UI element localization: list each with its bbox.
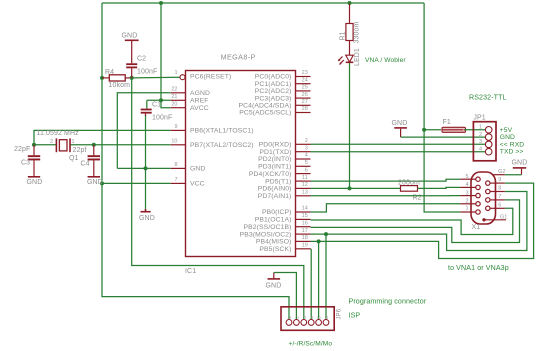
svg-text:21: 21 — [171, 94, 177, 100]
svg-text:22pf: 22pf — [73, 147, 87, 154]
ground above C2 — [122, 33, 139, 41]
svg-text:PB4(MISO): PB4(MISO) — [256, 239, 292, 246]
svg-text:GND: GND — [266, 282, 282, 289]
svg-text:16: 16 — [302, 220, 308, 226]
svg-text:to VNA1 or VNA3p: to VNA1 or VNA3p — [448, 264, 509, 272]
pin 25 PC2 stub — [255, 85, 311, 96]
svg-text:14: 14 — [302, 206, 308, 212]
svg-text:GND: GND — [122, 33, 138, 40]
svg-text:PC3(ADC3): PC3(ADC3) — [255, 95, 292, 102]
svg-text:Q1: Q1 — [69, 155, 79, 162]
svg-text:VCC: VCC — [190, 181, 205, 188]
pin X1-9 stub — [490, 177, 505, 183]
wire PB3 to ISP pin6 — [325, 234, 327, 320]
svg-text:PD4(XCK/T0): PD4(XCK/T0) — [249, 171, 292, 178]
svg-text:PD2(INT0): PD2(INT0) — [258, 156, 291, 163]
svg-text:C1: C1 — [152, 102, 161, 109]
svg-text:C2: C2 — [137, 56, 146, 63]
svg-text:6: 6 — [305, 167, 308, 173]
node crystal left junction — [32, 143, 36, 147]
wire PB3 to DB9 pin8 — [311, 192, 527, 251]
capacitor C2 — [126, 40, 157, 78]
svg-text:AVCC: AVCC — [190, 105, 209, 112]
pin 9 XTAL1 stub — [171, 124, 254, 135]
wire R2 to DB9 pin4 — [418, 187, 461, 188]
wire PB1 to DB9 pin6 — [311, 208, 513, 234]
svg-text:1: 1 — [287, 316, 292, 319]
svg-text:PC6(RESET): PC6(RESET) — [190, 74, 231, 81]
svg-text:PD5(T1): PD5(T1) — [265, 178, 291, 185]
pin 19 PB5 stub — [259, 243, 310, 254]
svg-text:LED1: LED1 — [354, 48, 361, 66]
svg-text:PC4(ADC4/SDA): PC4(ADC4/SDA) — [238, 103, 291, 110]
svg-text:2: 2 — [295, 316, 300, 319]
node VCC R1 junction — [348, 1, 352, 5]
svg-text:PC1(ADC1): PC1(ADC1) — [255, 81, 292, 88]
capacitor C4 — [73, 145, 101, 176]
svg-text:+5V: +5V — [500, 127, 513, 134]
wire PB4 to DB9 pin9 — [311, 183, 534, 258]
ground under C4 — [87, 177, 103, 186]
svg-text:18: 18 — [302, 235, 308, 241]
svg-text:10: 10 — [171, 139, 177, 145]
pin X1-4 stub — [460, 182, 475, 188]
svg-text:3: 3 — [479, 139, 482, 145]
pin 17 PB3 stub — [240, 228, 311, 239]
svg-text:R4: R4 — [105, 69, 114, 76]
pin X1-G2 stub — [493, 169, 505, 175]
svg-text:GND: GND — [87, 179, 103, 186]
LED LED1 — [338, 48, 407, 66]
svg-text:8: 8 — [498, 186, 501, 192]
crystal Q1 — [37, 130, 80, 162]
svg-text:MEGA8-P: MEGA8-P — [221, 53, 256, 62]
svg-text:PB1(OC1A): PB1(OC1A) — [255, 217, 292, 224]
svg-text:GND: GND — [190, 166, 205, 173]
svg-text:100nF: 100nF — [152, 115, 172, 122]
pin 24 PC1 stub — [255, 77, 311, 88]
pin 2 PD0 stub — [259, 138, 311, 149]
pin 13 PD7 stub — [258, 190, 311, 201]
svg-text:JP1: JP1 — [473, 115, 485, 122]
node PB3 ISP junction — [324, 232, 328, 236]
connector X1 DB9 — [471, 172, 496, 231]
svg-text:PB7(XTAL2/TOSC2): PB7(XTAL2/TOSC2) — [190, 142, 254, 149]
wire C1 bottom to GND net — [145, 115, 147, 169]
pin 5 PD3 stub — [258, 160, 310, 171]
svg-text:24: 24 — [302, 77, 308, 83]
svg-text:7: 7 — [498, 194, 501, 200]
svg-text:25: 25 — [302, 85, 308, 91]
pin 4 PD2 stub — [258, 153, 310, 164]
svg-text:27: 27 — [302, 99, 308, 105]
wire XTAL1 — [34, 130, 171, 144]
svg-text:9: 9 — [498, 177, 501, 183]
svg-text:11.0592 MHz: 11.0592 MHz — [37, 130, 80, 137]
ground at ISP — [266, 273, 282, 290]
svg-text:PD6(AIN0): PD6(AIN0) — [258, 186, 292, 193]
resistor R1 — [340, 4, 361, 55]
pin 6 PD4 stub — [249, 167, 311, 178]
wire GND symbol drop under chip — [145, 168, 147, 209]
svg-text:TXD >>: TXD >> — [500, 149, 524, 156]
wire JP1 GND — [401, 136, 486, 138]
svg-text:6: 6 — [324, 316, 329, 319]
svg-text:3: 3 — [305, 145, 308, 151]
svg-text:PD7(AIN1): PD7(AIN1) — [258, 193, 292, 200]
svg-text:VNA / Wobler: VNA / Wobler — [365, 57, 406, 64]
svg-text:G2: G2 — [498, 169, 505, 175]
node PB4 ISP junction — [317, 239, 321, 243]
pin X1-3 stub — [460, 190, 475, 196]
wire RESET to pin1 — [132, 76, 180, 79]
wire PB0 to DB9 pin2 — [311, 204, 461, 212]
svg-text:PD0(RXD): PD0(RXD) — [259, 142, 292, 149]
node GND net junction — [144, 166, 148, 170]
pin 16 PB2 stub — [243, 220, 310, 231]
pin 23 PC0 stub — [255, 70, 311, 81]
pin X1-8 stub — [490, 186, 505, 192]
pin 20 AVCC stub — [171, 101, 209, 112]
wire C1 top drop — [146, 100, 148, 108]
resistor R2 — [398, 180, 422, 202]
svg-text:3: 3 — [302, 316, 307, 319]
wire F1 to JP1 pin1 — [464, 129, 485, 131]
svg-text:R1: R1 — [340, 31, 347, 40]
svg-text:9: 9 — [174, 124, 177, 130]
pin 8 GND stub — [171, 162, 206, 173]
svg-text:10kom: 10kom — [109, 82, 131, 89]
pin 21 AREF stub — [171, 94, 209, 105]
svg-text:Programming connector: Programming connector — [349, 298, 427, 306]
svg-text:1: 1 — [72, 139, 75, 145]
svg-text:28: 28 — [302, 106, 308, 112]
svg-text:5: 5 — [465, 174, 468, 180]
ground at X1 pin9 — [505, 159, 528, 174]
wire +5V vertical to DB9 pin1 — [424, 3, 460, 212]
pin 3 PD1 stub — [259, 145, 310, 156]
node crystal right junction — [92, 143, 96, 147]
wire crystal row right — [71, 144, 94, 146]
svg-text:JP6: JP6 — [337, 308, 343, 319]
svg-text:13: 13 — [302, 190, 308, 196]
svg-text:AREF: AREF — [190, 98, 209, 105]
svg-text:GND: GND — [392, 120, 408, 127]
wire VCC left rail — [102, 3, 289, 320]
pin 11 PD5 stub — [265, 175, 310, 186]
svg-text:2: 2 — [479, 132, 482, 138]
wire LED to PD6 — [349, 63, 351, 188]
wire PD6 to R2 — [311, 187, 401, 189]
pin 27 PC4 stub — [238, 99, 310, 110]
svg-text:22pF: 22pF — [14, 146, 30, 153]
capacitor C1 — [141, 102, 173, 122]
node RESET junction — [130, 76, 134, 80]
pin 22 AGND stub — [171, 87, 210, 98]
svg-text:GND: GND — [512, 159, 528, 166]
svg-text:PB6(XTAL1/TOSC1): PB6(XTAL1/TOSC1) — [190, 128, 254, 135]
svg-text:GND: GND — [27, 179, 43, 186]
svg-text:23: 23 — [302, 70, 308, 76]
svg-text:GND: GND — [500, 134, 515, 141]
pin X1-6 stub — [490, 202, 505, 208]
wire VCC pin7 — [102, 182, 171, 184]
svg-text:4: 4 — [305, 153, 308, 159]
pin X1-1 stub — [460, 206, 475, 212]
pin 18 PB4 stub — [256, 235, 311, 246]
svg-text:19: 19 — [302, 243, 308, 249]
svg-text:PD1(TXD): PD1(TXD) — [259, 149, 291, 156]
node LED PD6 junction — [348, 186, 352, 190]
svg-text:4: 4 — [309, 316, 314, 319]
pin 12 PD6 stub — [258, 182, 311, 193]
wire AGND run — [117, 93, 171, 169]
svg-text:26: 26 — [302, 92, 308, 98]
node VCC top-left junction — [159, 1, 163, 5]
pin 14 PB0 stub — [262, 206, 311, 217]
svg-text:15: 15 — [302, 213, 308, 219]
svg-text:100nF: 100nF — [137, 69, 157, 76]
pin 1 PC6/RESET stub — [174, 70, 231, 81]
svg-text:+/-/R/Sc/M/Mo: +/-/R/Sc/M/Mo — [289, 341, 333, 348]
resistor R4 — [102, 69, 132, 89]
svg-text:X1: X1 — [472, 224, 481, 231]
svg-text:ISP: ISP — [349, 312, 361, 320]
pin 7 VCC stub — [171, 177, 205, 188]
wire TXD line — [311, 151, 486, 153]
wire RXD line — [311, 143, 486, 145]
connector JP1 — [473, 115, 496, 161]
svg-text:2: 2 — [305, 138, 308, 144]
svg-text:5: 5 — [317, 316, 322, 319]
wire GND pin8 — [117, 167, 171, 169]
svg-text:PB0(ICP): PB0(ICP) — [262, 209, 292, 216]
svg-text:PC2(ADC2): PC2(ADC2) — [255, 88, 292, 95]
pin 28 PC5 stub — [239, 106, 310, 117]
wire PB4 to ISP pin5 — [318, 241, 320, 320]
svg-text:2: 2 — [465, 199, 468, 205]
svg-text:PC0(ADC0): PC0(ADC0) — [255, 74, 292, 81]
pin X1-5 stub — [460, 174, 475, 180]
wire PD7 to DB9 pin3 — [311, 195, 461, 197]
wire crystal row left — [34, 144, 56, 146]
ground under C3 — [27, 177, 43, 186]
op IC1 MEGA8-P box — [185, 53, 296, 276]
pin 10 XTAL2 stub — [171, 139, 254, 150]
svg-text:12: 12 — [302, 182, 308, 188]
pin X1-G1 stub — [482, 215, 507, 222]
wire ISP GND — [274, 273, 297, 321]
node RESET R4 left junction — [100, 76, 104, 80]
svg-text:<< RXD: << RXD — [500, 141, 524, 148]
wire RESET down to ISP — [132, 78, 304, 320]
wire PD5 to DB9 pin5 — [311, 179, 461, 181]
svg-text:5: 5 — [305, 160, 308, 166]
wire PB2 to DB9 pin7 — [311, 200, 520, 243]
svg-text:20: 20 — [171, 101, 177, 107]
svg-text:AGND: AGND — [190, 90, 210, 97]
ground at JP1 — [392, 120, 408, 137]
svg-text:22: 22 — [171, 87, 177, 93]
svg-text:2: 2 — [50, 139, 53, 145]
svg-text:C4: C4 — [81, 161, 90, 168]
svg-text:7: 7 — [174, 177, 177, 183]
wire PB5 to ISP pin4 — [310, 249, 312, 320]
svg-text:IC1: IC1 — [185, 268, 196, 275]
pin 26 PC3 stub — [255, 92, 311, 103]
svg-text:F1: F1 — [443, 119, 451, 126]
pin X1-2 stub — [460, 199, 475, 205]
node VCC pin7 junction — [100, 181, 104, 185]
fuse F1 — [442, 119, 466, 132]
node F1 junction — [422, 128, 426, 132]
svg-text:1: 1 — [479, 125, 482, 131]
svg-text:330om: 330om — [354, 22, 361, 44]
wire F1 left lead — [424, 129, 441, 131]
svg-text:PB3(MOSI/OC2): PB3(MOSI/OC2) — [240, 231, 292, 238]
svg-text:PC5(ADC5/SCL): PC5(ADC5/SCL) — [239, 110, 291, 117]
capacitor C3 — [14, 145, 40, 176]
svg-text:PD3(INT1): PD3(INT1) — [258, 164, 291, 171]
ground under chip — [139, 209, 155, 222]
svg-text:G1: G1 — [500, 215, 507, 221]
svg-text:4: 4 — [479, 147, 482, 153]
svg-text:PB2(SS/OC1B): PB2(SS/OC1B) — [243, 224, 291, 231]
pin 15 PB1 stub — [255, 213, 311, 224]
svg-text:1: 1 — [174, 70, 177, 76]
svg-text:200om: 200om — [398, 180, 420, 187]
svg-text:11: 11 — [302, 175, 308, 181]
svg-text:3: 3 — [465, 190, 468, 196]
svg-text:6: 6 — [498, 202, 501, 208]
svg-text:C3: C3 — [21, 160, 30, 167]
wire AVCC drop from top rail — [161, 3, 171, 108]
wire XTAL2 to pin10 — [94, 144, 171, 146]
svg-text:RS232-TTL: RS232-TTL — [469, 94, 507, 102]
svg-text:4: 4 — [465, 182, 468, 188]
pin X1-7 stub — [490, 194, 505, 200]
wire VCC top rail — [102, 2, 424, 4]
node AREF-AVCC junction — [159, 98, 163, 102]
wire AREF to C1 — [147, 99, 171, 101]
svg-text:PB5(SCK): PB5(SCK) — [259, 246, 291, 253]
svg-text:GND: GND — [139, 215, 155, 222]
connector ISP JP6 — [281, 307, 343, 331]
svg-text:8: 8 — [174, 162, 177, 168]
svg-text:1: 1 — [465, 206, 468, 212]
svg-text:17: 17 — [302, 228, 308, 234]
